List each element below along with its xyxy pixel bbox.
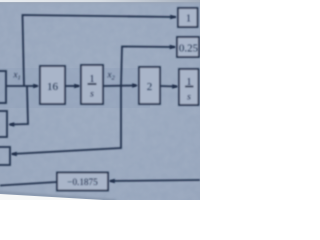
page bottom edge shadow: [0, 193, 116, 201]
svg-text:0.25: 0.25: [179, 43, 199, 55]
svg-text:1: 1: [90, 74, 95, 85]
block 2 box: [139, 67, 160, 104]
arrowhead into block 16: [33, 84, 39, 89]
integrator 2 box: [179, 69, 199, 105]
svg-text:2: 2: [147, 81, 153, 93]
svg-text:−0.1875: −0.1875: [67, 177, 98, 187]
fraction bar integrator 1: [88, 83, 97, 85]
svg-text:s: s: [90, 90, 94, 100]
wire: block 16 to integrator 1: [65, 85, 79, 87]
arrowhead into summer B: [8, 122, 14, 127]
white area below page at bottom left: [0, 194, 112, 201]
summer C (cut off at left edge): [0, 147, 10, 165]
integrator 1 box: [81, 65, 103, 104]
svg-text:s: s: [187, 93, 191, 103]
wire: integrator 1 to block 2: [103, 85, 136, 88]
wire: block 2 to integrator 2: [160, 85, 177, 88]
arrowhead into block 1: [170, 15, 176, 20]
arrowhead into block 2: [132, 83, 138, 88]
wire: node x2 down-left into summer C: [12, 86, 121, 154]
block -0.1875 box: [57, 173, 108, 191]
summer A (cut off at left edge): [0, 71, 6, 103]
block 0.25 box: [177, 37, 199, 57]
page background: [0, 0, 200, 200]
svg-text:1: 1: [186, 14, 191, 25]
top page edge light band: [0, 0, 200, 2]
svg-text:1: 1: [187, 77, 192, 88]
block 1 box: [178, 8, 198, 27]
wire: block -0.1875 output to left edge: [0, 182, 57, 186]
wire: node x1 down-left into summer B: [10, 86, 28, 125]
wire: summer A output to block 16: [6, 85, 37, 87]
arrowhead into summer C: [11, 152, 17, 157]
arrowhead into integrator 1: [74, 84, 80, 89]
arrowhead into block -0.1875: [109, 179, 115, 184]
wire: right edge into block -0.1875: [110, 180, 200, 181]
wire: node x2 up and right to block 0.25: [121, 47, 175, 87]
fraction bar integrator 2: [185, 86, 194, 88]
wire: node x1 up and right to block 1: [23, 15, 177, 86]
svg-text:16: 16: [47, 81, 59, 93]
summer B (cut off at left edge): [0, 111, 7, 137]
arrowhead into integrator 2: [172, 84, 178, 89]
block 16 box: [40, 66, 65, 104]
arrowhead into block 0.25: [170, 45, 176, 50]
